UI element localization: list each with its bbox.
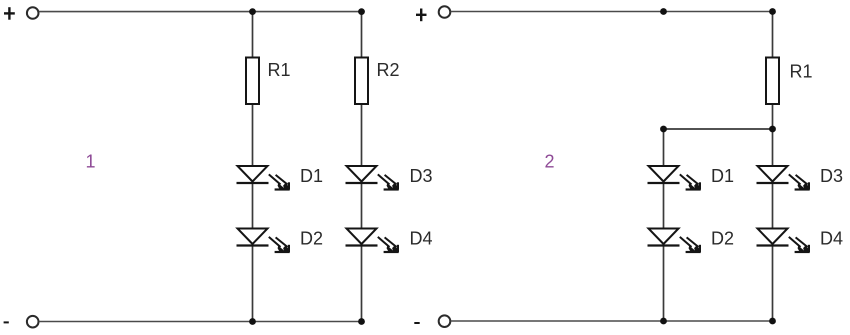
svg-text:D2: D2 bbox=[711, 229, 734, 249]
junction top branch B circuit 1 bbox=[358, 8, 365, 15]
wire branch B vertical circuit 1 bbox=[361, 12, 363, 322]
LED D1 circuit 1 bbox=[237, 166, 290, 190]
wire parallel tie circuit 2 bbox=[664, 128, 773, 130]
junction tie right circuit 2 bbox=[769, 126, 776, 133]
wire top rail circuit 2 bbox=[451, 11, 773, 13]
resistor R1 circuit 2 bbox=[766, 58, 779, 105]
junction bottom branch B circuit 1 bbox=[358, 318, 365, 325]
wire bottom rail circuit 2 bbox=[451, 320, 773, 322]
LED D2 circuit 1 bbox=[237, 229, 290, 253]
svg-text:2: 2 bbox=[545, 152, 555, 172]
resistor R1 circuit 1 bbox=[246, 58, 259, 105]
plus terminal label circuit 1 bbox=[4, 7, 15, 20]
svg-text:D1: D1 bbox=[711, 166, 734, 186]
resistor R2 circuit 1 bbox=[355, 58, 368, 105]
LED D4 circuit 2 bbox=[757, 229, 810, 253]
LED D4 circuit 1 bbox=[346, 229, 399, 253]
LED D3 circuit 2 bbox=[757, 166, 810, 190]
junction top rail mid circuit 2 bbox=[660, 8, 667, 15]
plus terminal label circuit 2 bbox=[416, 9, 427, 22]
svg-text:D4: D4 bbox=[410, 229, 433, 249]
svg-text:1: 1 bbox=[86, 152, 96, 172]
LED D3 circuit 1 bbox=[346, 166, 399, 190]
wire top rail circuit 1 bbox=[39, 11, 362, 13]
junction top right corner circuit 2 bbox=[769, 8, 776, 15]
svg-text:R2: R2 bbox=[377, 60, 400, 80]
junction tie left circuit 2 bbox=[660, 126, 667, 133]
wire branch A vertical circuit 1 bbox=[252, 12, 254, 322]
svg-text:D2: D2 bbox=[300, 229, 323, 249]
svg-text:D3: D3 bbox=[410, 166, 433, 186]
junction top branch A circuit 1 bbox=[249, 8, 256, 15]
wire right branch vertical circuit 2 bbox=[772, 12, 774, 322]
negative terminal circle circuit 1 bbox=[27, 316, 39, 328]
junction bottom right circuit 2 bbox=[769, 318, 776, 325]
junction bottom branch A circuit 1 bbox=[249, 318, 256, 325]
svg-text:D4: D4 bbox=[820, 229, 843, 249]
svg-text:R1: R1 bbox=[268, 60, 291, 80]
positive terminal circle circuit 2 bbox=[439, 6, 451, 18]
negative terminal circle circuit 2 bbox=[439, 315, 451, 327]
wire left branch vertical circuit 2 bbox=[663, 129, 665, 321]
wire bottom rail circuit 1 bbox=[39, 321, 362, 323]
LED D1 circuit 2 bbox=[648, 166, 701, 190]
junction bottom left circuit 2 bbox=[660, 318, 667, 325]
LED D2 circuit 2 bbox=[648, 229, 701, 253]
positive terminal circle circuit 1 bbox=[27, 7, 39, 19]
svg-text:D3: D3 bbox=[820, 166, 843, 186]
svg-text:R1: R1 bbox=[790, 62, 813, 82]
minus terminal label circuit 1 bbox=[4, 321, 9, 323]
svg-text:D1: D1 bbox=[300, 166, 323, 186]
minus terminal label circuit 2 bbox=[414, 322, 419, 324]
